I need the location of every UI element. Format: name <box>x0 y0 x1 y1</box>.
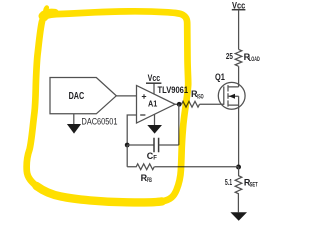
svg-text:DAC60501: DAC60501 <box>82 117 118 128</box>
capacitor C_F <box>127 144 154 146</box>
svg-text:Vcc: Vcc <box>148 73 161 83</box>
wire Vcc to R_LOAD <box>238 10 240 50</box>
wire R_ISO to gate <box>200 103 224 105</box>
DAC block U-DAC <box>50 78 116 114</box>
resistor R_ISO <box>182 101 200 107</box>
svg-text:SET: SET <box>250 182 258 188</box>
wire junction down to R_FB line <box>126 145 128 167</box>
node source/R_SET junction <box>236 165 241 170</box>
resistor R_LOAD <box>235 49 242 66</box>
op-amp A1 <box>137 86 176 124</box>
node output junction <box>177 102 182 107</box>
wire drain up <box>238 66 240 87</box>
svg-text:ISO: ISO <box>197 94 204 100</box>
svg-text:FB: FB <box>147 178 152 184</box>
resistor R_SET <box>235 167 242 212</box>
svg-text:Q1: Q1 <box>215 72 225 82</box>
svg-text:A1: A1 <box>148 99 158 109</box>
node feedback junction <box>125 143 130 148</box>
svg-text:25: 25 <box>226 51 233 61</box>
ground (DAC) <box>73 114 75 124</box>
wire R_FB to junction <box>154 166 238 168</box>
ground (op-amp) <box>154 114 156 125</box>
wire source down <box>238 96 240 167</box>
svg-text:LOAD: LOAD <box>249 56 260 63</box>
svg-text:5.1: 5.1 <box>225 177 232 187</box>
resistor R_FB <box>127 164 154 170</box>
wire op-amp output <box>175 103 182 105</box>
svg-text:F: F <box>153 156 157 162</box>
wire DAC output to op-amp non-inverting input <box>116 95 136 97</box>
svg-text:DAC: DAC <box>69 91 85 102</box>
wire C_F up to output node <box>178 104 180 145</box>
wire inverting input <box>127 115 136 145</box>
yellow highlighter loop <box>27 8 189 203</box>
Vcc rail (op-amp) <box>153 83 155 94</box>
ground (R_SET) <box>230 212 247 221</box>
